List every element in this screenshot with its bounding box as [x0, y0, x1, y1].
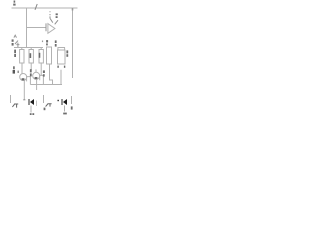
diode D1 cathode bar	[28, 99, 30, 105]
wire top rail left	[12, 7, 78, 9]
resistor R2	[29, 50, 33, 64]
wire base horizontal	[27, 27, 46, 29]
lamp LP2 lead bottom	[36, 79, 38, 90]
resistor R3 lead bottom	[40, 63, 42, 75]
transistor Q2 emitter arrow	[12, 104, 18, 108]
transistor Q1 body triangle	[48, 24, 55, 34]
resistor R1 lead top	[21, 48, 23, 50]
wire buzzer lead left	[57, 48, 59, 51]
transistor Q3 lead	[43, 95, 45, 103]
potentiometer RV1 label	[12, 39, 14, 45]
lamp LP2 inner mark	[35, 77, 38, 79]
buzzer pin marks	[57, 66, 65, 68]
wire right bottom label	[71, 106, 73, 109]
transistor Q3 emitter arrow	[46, 103, 52, 106]
resistor R1	[20, 50, 24, 64]
buzzer LS1 body	[58, 50, 66, 64]
node V+ label	[13, 1, 15, 6]
lamp LP1 lead foot	[23, 99, 25, 101]
lamp LP2 label	[30, 69, 32, 76]
transistor Q1 label	[56, 13, 58, 18]
resistor R4	[47, 47, 52, 64]
resistor R2 lead top	[30, 48, 32, 50]
wire buzzer lead bottom	[60, 70, 62, 85]
transistor Q1 emitter arrow slash	[55, 20, 58, 24]
diode D1 anode lead	[36, 101, 38, 107]
fuse F1	[35, 4, 37, 10]
transistor Q2 lead	[10, 95, 12, 103]
diode D1 bottom lead	[30, 106, 32, 113]
buzzer LS1 label right	[66, 50, 68, 56]
wire resistor rail	[14, 47, 43, 49]
lamp LP1 label mark	[18, 71, 19, 73]
wire bottom rail	[30, 84, 62, 86]
wire buzzer lead right	[64, 48, 66, 51]
resistor R2 lead bottom	[30, 63, 32, 70]
junction right branch	[72, 8, 74, 11]
resistor R4 lead bottom	[50, 64, 53, 85]
diode D2 cathode bar	[61, 99, 63, 105]
resistor R3 value mark	[39, 53, 41, 58]
resistor R3	[39, 50, 43, 64]
wire left branch vertical	[26, 8, 28, 48]
lamp LP1 square	[27, 77, 31, 85]
buzzer LS1 label left	[55, 40, 57, 46]
resistor R3 lead top	[40, 48, 42, 50]
potentiometer RV1 arrow	[14, 35, 20, 47]
wire right bottom stub	[71, 96, 73, 104]
lamp LP2 square	[40, 75, 44, 84]
lamp LP1 label	[13, 66, 15, 73]
diode D2 bottom lead	[64, 106, 66, 112]
lamp LP2	[33, 72, 40, 79]
lamp LP1 inner mark	[22, 78, 25, 80]
transistor Q1 collector diagonal	[50, 19, 53, 23]
diode D1	[30, 99, 34, 105]
transistor Q3 label	[44, 108, 46, 111]
resistor R1 label	[14, 50, 16, 57]
wire right branch vertical	[72, 8, 74, 78]
transistor Q1 base bar	[45, 23, 47, 31]
resistor R1 lead bottom	[21, 63, 23, 74]
resistor R2 value mark	[30, 53, 32, 58]
diode D2	[63, 99, 67, 105]
wire buzzer bridge	[58, 47, 66, 49]
lamp LP1	[20, 74, 27, 81]
capacitor C1 label	[43, 70, 45, 76]
node dot	[57, 100, 59, 101]
resistor R4 label	[42, 40, 48, 45]
lamp LP2 lead top	[35, 69, 37, 72]
lamp LP1 lead bottom	[23, 80, 25, 99]
diode D1 label	[30, 113, 34, 115]
transistor Q1 collector dashed lead	[49, 11, 51, 18]
diode D2 label	[63, 113, 67, 115]
